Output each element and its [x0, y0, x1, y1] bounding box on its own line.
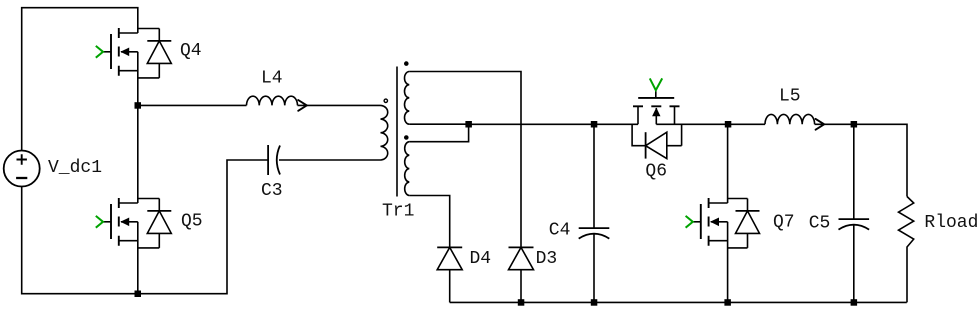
svg-text:Q7: Q7: [773, 213, 795, 233]
svg-text:C5: C5: [809, 214, 831, 234]
svg-text:Q5: Q5: [181, 211, 203, 231]
svg-text:C4: C4: [549, 221, 571, 241]
svg-text:Tr1: Tr1: [382, 201, 414, 221]
svg-text:C3: C3: [261, 181, 283, 201]
svg-text:Q6: Q6: [645, 162, 667, 182]
svg-text:D3: D3: [536, 249, 558, 269]
svg-text:Q4: Q4: [180, 41, 202, 61]
svg-text:L4: L4: [261, 69, 283, 89]
svg-text:D4: D4: [470, 249, 492, 269]
svg-text:L5: L5: [779, 86, 801, 106]
svg-text:Rload: Rload: [924, 213, 978, 233]
svg-text:V_dc1: V_dc1: [48, 158, 102, 178]
